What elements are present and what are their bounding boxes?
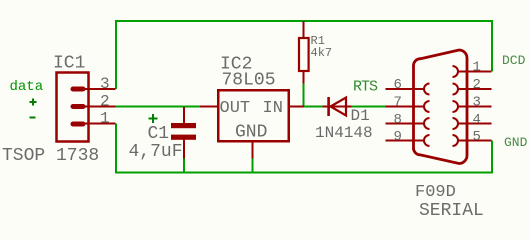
svg-text:GND: GND [235, 123, 267, 143]
svg-text:2: 2 [473, 77, 481, 93]
svg-text:data: data [10, 79, 44, 95]
svg-text:D1: D1 [351, 107, 370, 125]
DB9 pin 7 socket arc [424, 101, 430, 112]
DB9 pin 5 line [458, 140, 492, 142]
svg-text:IN: IN [263, 99, 283, 118]
DB9 pin 3 line [458, 106, 492, 108]
svg-text:4k7: 4k7 [311, 46, 333, 60]
wire top net (V+ rail) [116, 21, 492, 89]
IC1 pin 2 [71, 104, 116, 109]
svg-text:1: 1 [473, 60, 481, 76]
IC1 pin 1 [71, 122, 116, 127]
DB9 connector X1 outline [413, 50, 467, 164]
wire diode anode to DB9 pin7 (RTS net) [351, 106, 386, 108]
diode D1 cathode bar [327, 97, 330, 116]
wire IC1 pin2 to IC2 OUT [115, 106, 200, 108]
svg-text:OUT: OUT [220, 99, 251, 118]
svg-text:1N4148: 1N4148 [315, 124, 373, 142]
DB9 pin 1 line [458, 71, 492, 73]
net label + [30, 99, 37, 106]
DB9 pin 9 line [386, 140, 425, 142]
svg-text:SERIAL: SERIAL [419, 201, 484, 221]
DB9 pin 1 socket arc [453, 66, 459, 77]
IC1 pin 3 [71, 87, 116, 92]
DB9 pin 8 socket arc [424, 118, 430, 129]
IC1 connector body (TSOP 1738) [57, 73, 89, 142]
svg-text:DCD: DCD [502, 53, 526, 68]
svg-text:78L05: 78L05 [222, 71, 276, 91]
svg-text:RTS: RTS [353, 79, 378, 96]
DB9 pin 7 line [386, 106, 425, 108]
svg-text:7: 7 [394, 95, 402, 111]
svg-text:1: 1 [100, 110, 110, 128]
IC2 pin OUT [200, 106, 218, 108]
svg-text:IC1: IC1 [53, 54, 85, 74]
svg-text:8: 8 [394, 112, 402, 128]
diode D1 triangle [331, 98, 347, 116]
svg-text:2: 2 [100, 93, 110, 111]
IC2 pin IN [289, 106, 304, 108]
DB9 pin 2 line [458, 88, 492, 90]
svg-text:6: 6 [394, 77, 402, 93]
DB9 pin 6 line [386, 88, 425, 90]
C1 polarity + mark [149, 114, 158, 123]
resistor R1 pin top [303, 21, 305, 38]
DB9 pin 6 socket arc [424, 84, 429, 95]
wire bottom ground rail [116, 124, 492, 173]
DB9 pin 4 line [458, 123, 492, 125]
svg-text:9: 9 [394, 129, 402, 145]
svg-text:TSOP 1738: TSOP 1738 [2, 146, 99, 166]
svg-text:4,7uF: 4,7uF [129, 142, 183, 162]
resistor R1 body [299, 38, 309, 71]
net label - [30, 117, 36, 119]
svg-text:C1: C1 [148, 124, 170, 144]
capacitor C1 plates [171, 123, 196, 140]
svg-text:4: 4 [473, 112, 481, 128]
svg-text:GND: GND [504, 135, 528, 150]
DB9 pin 5 socket arc [453, 135, 459, 146]
wire IC2 GND to ground rail [252, 158, 254, 173]
wire IC2 IN to diode cathode [304, 106, 323, 108]
svg-text:3: 3 [100, 75, 110, 93]
IC2 voltage regulator body 78L05 [218, 90, 289, 141]
wire R1 bottom to RTS node [303, 83, 305, 107]
svg-text:5: 5 [473, 129, 481, 145]
capacitor C1 pin top [183, 107, 185, 123]
wire C1 bottom to ground rail [183, 158, 185, 173]
DB9 pin 9 socket arc [424, 135, 430, 146]
resistor R1 pin bottom [303, 72, 305, 84]
DB9 pin 2 socket arc [453, 84, 458, 95]
DB9 pin 8 line [386, 123, 425, 125]
DB9 pin 3 socket arc [453, 101, 459, 112]
svg-text:F09D: F09D [415, 183, 456, 202]
capacitor C1 pin bottom [183, 140, 185, 159]
diode D1 pin line [323, 106, 352, 108]
IC2 pin GND stub [252, 142, 254, 159]
DB9 pin 4 socket arc [453, 118, 459, 129]
svg-text:3: 3 [473, 95, 481, 111]
